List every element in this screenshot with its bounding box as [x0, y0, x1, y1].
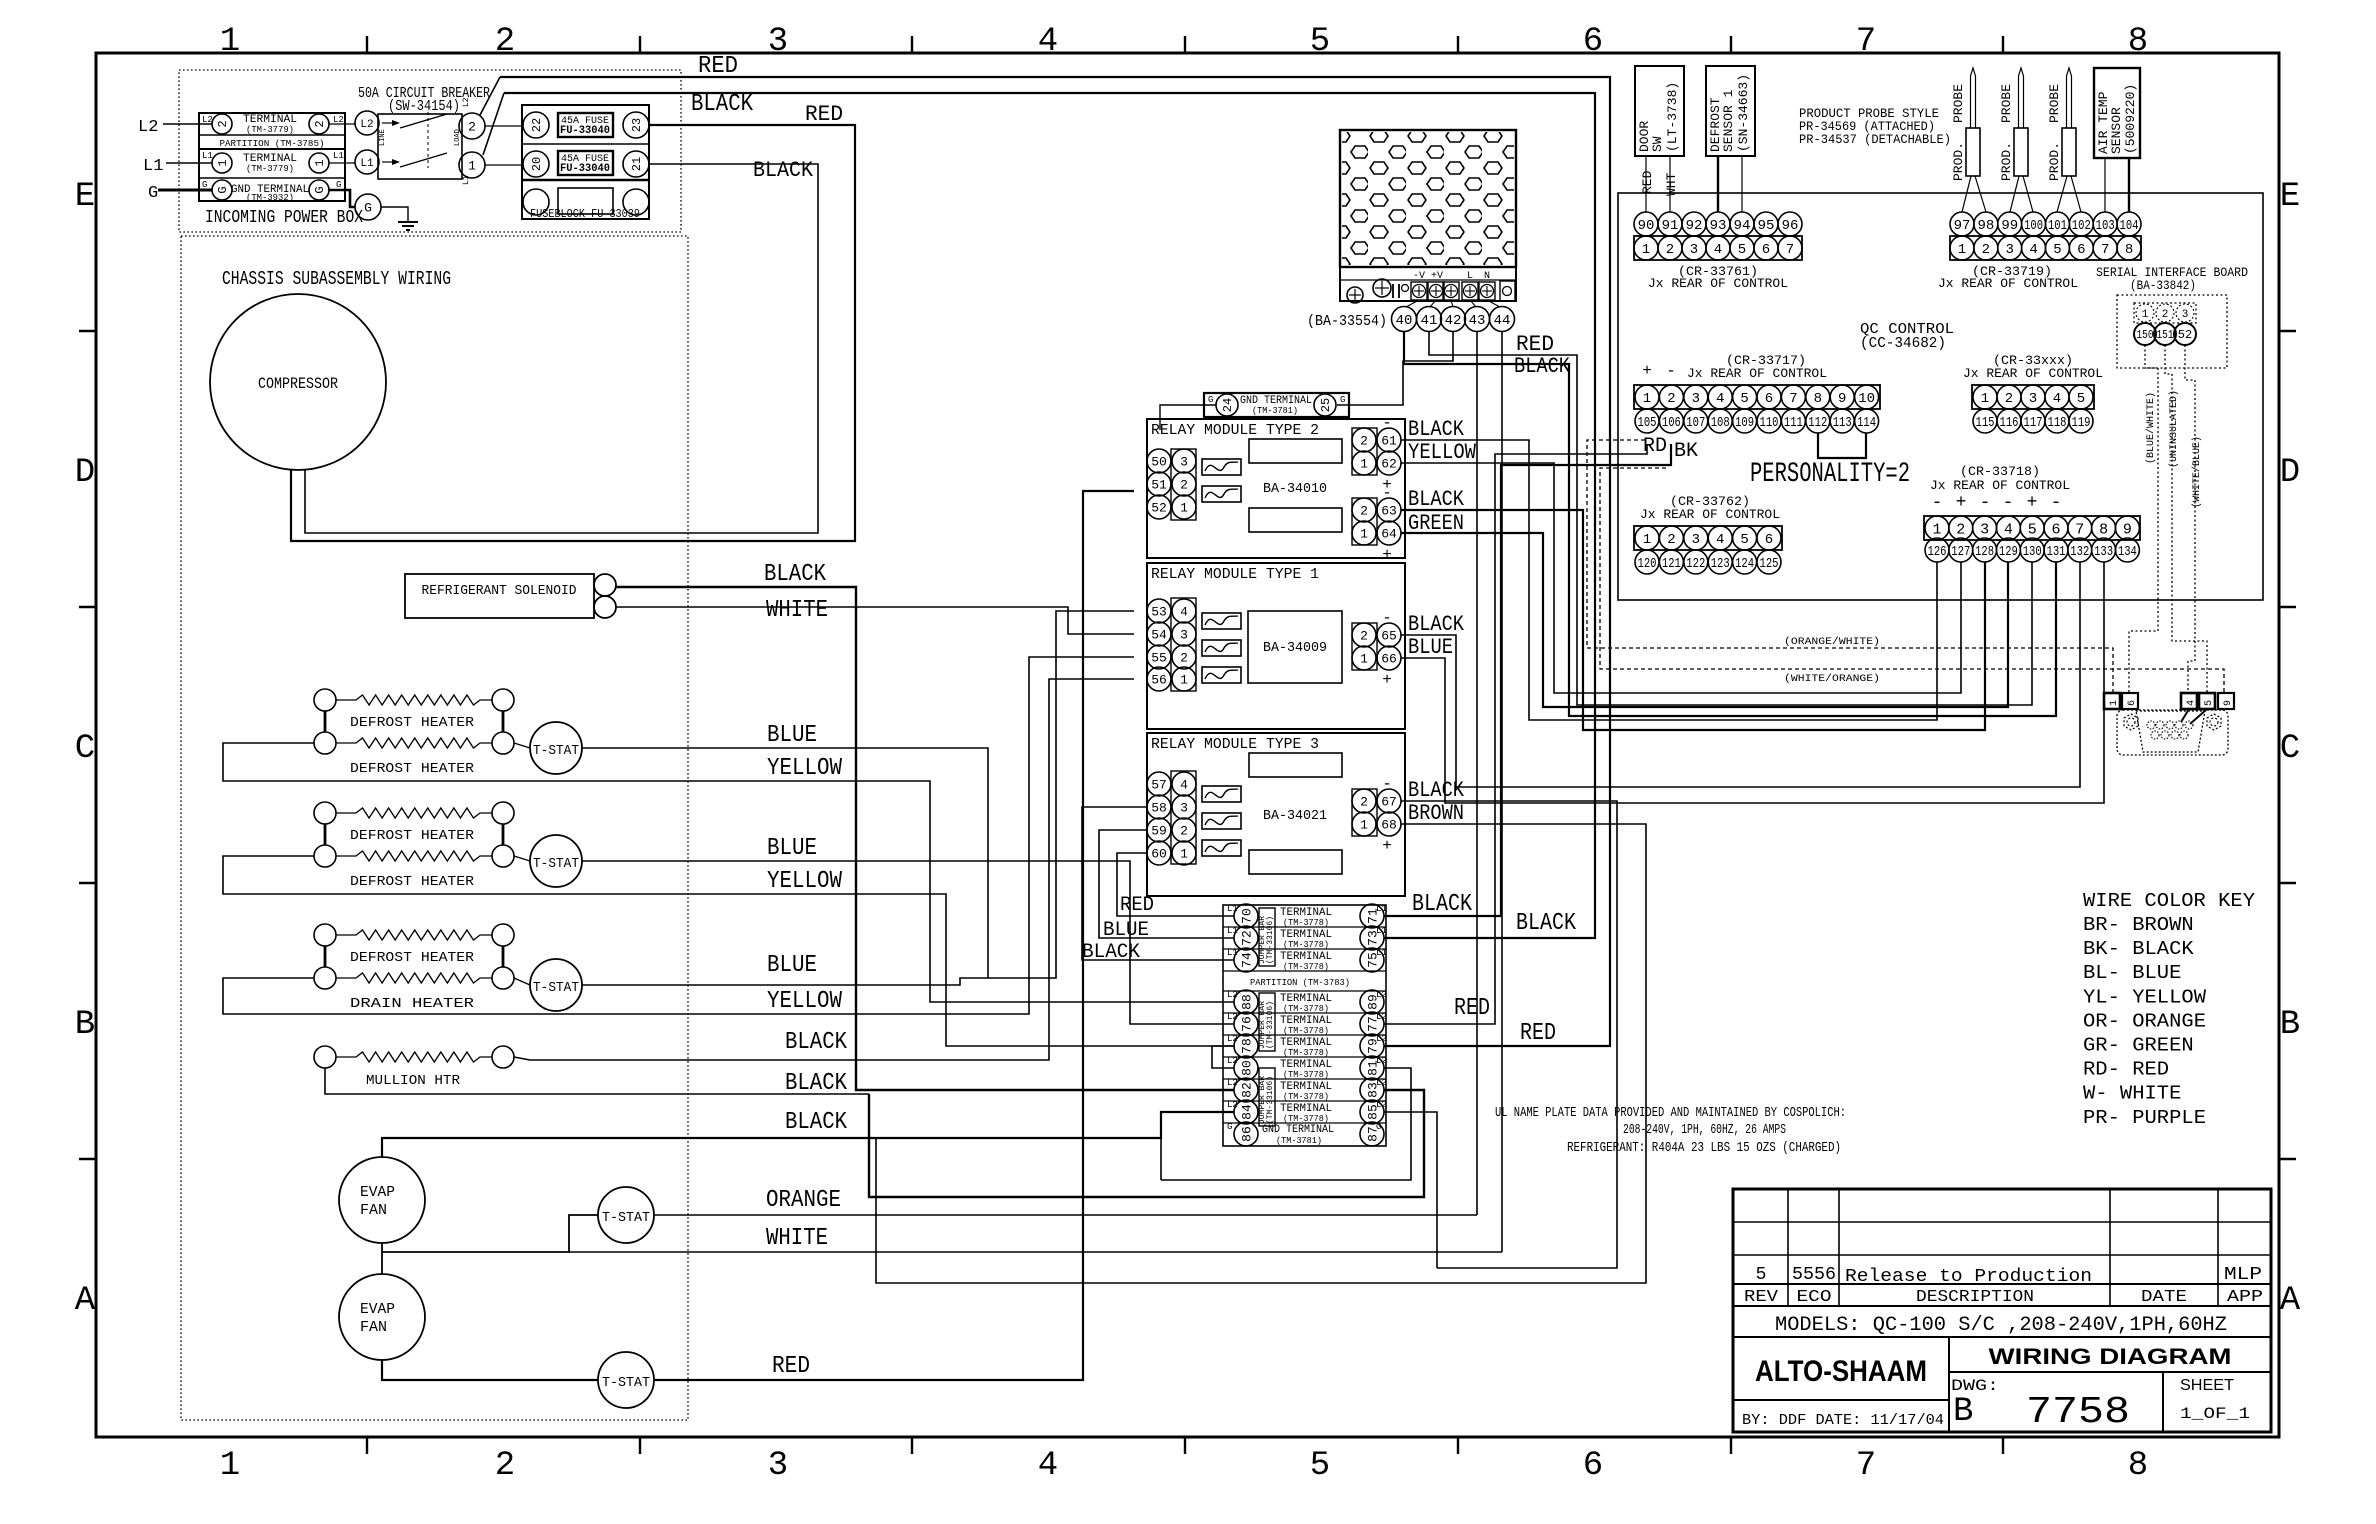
pin 3 [1973, 516, 1997, 540]
svg-text:(ORANGE/WHITE): (ORANGE/WHITE) [1784, 636, 1880, 648]
svg-text:G: G [216, 186, 230, 193]
terminal 41 [1417, 307, 1442, 332]
pin 113 [1830, 409, 1854, 433]
wire supply 43 [1476, 331, 1478, 1215]
relay1 body BA-34009 [1248, 611, 1342, 683]
svg-text:9: 9 [2123, 521, 2132, 538]
DB9 pins row1 [2147, 721, 2155, 729]
QC control enclosure [1618, 193, 2263, 600]
svg-text:3: 3 [2182, 309, 2189, 321]
wire door sw to 90 [1645, 156, 1647, 212]
pin 4 [1706, 236, 1730, 260]
svg-text:3: 3 [1180, 455, 1188, 470]
svg-text:24: 24 [1221, 398, 1235, 412]
wire air temp to 103 [2104, 158, 2106, 212]
svg-text:(TM-3778): (TM-3778) [1283, 1114, 1329, 1124]
svg-text:1: 1 [1360, 652, 1368, 667]
svg-text:59: 59 [1151, 824, 1167, 839]
frame tick [1457, 36, 1459, 53]
svg-text:L1: L1 [202, 151, 213, 161]
compressor [210, 294, 386, 470]
wire breaker 2 diagonal to RED bus [480, 77, 500, 115]
terminal 50/3 [1147, 449, 1171, 473]
svg-text:C: C [2280, 730, 2300, 768]
svg-text:1: 1 [220, 1447, 240, 1485]
svg-text:2: 2 [495, 23, 515, 61]
supply output terminals [1411, 282, 1427, 300]
pin 52 serial [2174, 323, 2196, 345]
t-stat 1 [530, 722, 582, 774]
svg-text:FAN: FAN [360, 1202, 387, 1219]
svg-text:BR- BROWN: BR- BROWN [2083, 914, 2194, 936]
svg-text:PARTITION (TM-3783): PARTITION (TM-3783) [1250, 978, 1350, 988]
svg-text:101: 101 [2048, 218, 2067, 234]
pin 6 [2044, 516, 2068, 540]
svg-text:WHT: WHT [1664, 172, 1679, 196]
relay module type 1 box [1147, 563, 1405, 729]
svg-text:5: 5 [2028, 521, 2037, 538]
fuse 45A FU-33040 bottom [558, 151, 613, 175]
pin 3 [2021, 385, 2045, 409]
wire blue strip 72 from relay 59 [1099, 830, 1234, 938]
wire YELLOW heater3 [223, 657, 1134, 1014]
pin 130 [2020, 538, 2044, 562]
svg-text:T-STAT: T-STAT [533, 980, 579, 996]
svg-text:3: 3 [2029, 391, 2037, 407]
svg-text:2: 2 [2005, 391, 2013, 407]
title block [1733, 1189, 2271, 1432]
pin 134 [2115, 538, 2139, 562]
pin 123 [1708, 550, 1732, 574]
pin 91 [1658, 212, 1682, 236]
wire serial 52 (WHITE/BLUE) dotted [2185, 345, 2195, 694]
svg-text:2: 2 [1982, 242, 1990, 258]
svg-text:+: + [2027, 493, 2038, 513]
wire supply 41 red [1429, 331, 2032, 705]
pin 128 [1973, 538, 1997, 562]
svg-text:1: 1 [216, 159, 230, 166]
svg-text:3: 3 [1690, 242, 1698, 258]
svg-text:4: 4 [1180, 605, 1188, 620]
svg-text:BLACK: BLACK [1514, 354, 1571, 379]
pin 150 serial [2134, 323, 2156, 345]
wire fuse 21 to compressor [305, 164, 818, 533]
wire heater3 to t-stat [514, 978, 530, 985]
wire 61 black [1401, 440, 1937, 720]
svg-text:(TM-3932): (TM-3932) [246, 193, 294, 203]
svg-text:125: 125 [1760, 556, 1779, 572]
pin 2 [1974, 236, 1998, 260]
pin 93 [1706, 212, 1730, 236]
heater element DRAIN HEATER [314, 967, 336, 989]
svg-text:8: 8 [1814, 391, 1822, 407]
svg-text:(CC-34682): (CC-34682) [1860, 335, 1946, 352]
wire BLACK mullion top [514, 679, 1134, 1060]
refrigerant solenoid [405, 574, 594, 618]
wire BLACK top bus [504, 93, 1595, 938]
svg-text:L2: L2 [1376, 1012, 1387, 1022]
svg-text:74: 74 [1240, 952, 1255, 968]
svg-text:131: 131 [2047, 544, 2066, 560]
svg-text:YELLOW: YELLOW [767, 868, 843, 895]
svg-text:58: 58 [1151, 801, 1167, 816]
wire to ground symbol [381, 207, 408, 222]
svg-text:111: 111 [1784, 415, 1803, 431]
svg-text:SHEET: SHEET [2180, 1377, 2234, 1394]
svg-text:LINE: LINE [379, 129, 387, 146]
svg-text:121: 121 [1662, 556, 1681, 572]
wire BK dashed from 106 [1600, 468, 2224, 694]
wire black strip 74 from relay 58 [1082, 807, 1234, 960]
svg-text:62: 62 [1381, 457, 1397, 472]
jumper bar 1 [1259, 908, 1275, 966]
svg-text:123: 123 [1711, 556, 1730, 572]
pin 120 [1635, 550, 1659, 574]
svg-text:L1: L1 [1376, 926, 1387, 936]
svg-text:99: 99 [2001, 218, 2018, 234]
svg-text:1_OF_1: 1_OF_1 [2180, 1405, 2250, 1423]
svg-text:RED: RED [1640, 170, 1655, 194]
svg-text:L2: L2 [1376, 1034, 1387, 1044]
wire BLUE heater3 [582, 611, 1134, 985]
svg-text:60: 60 [1151, 847, 1167, 862]
svg-text:BLACK: BLACK [1408, 612, 1465, 637]
svg-text:4: 4 [2186, 700, 2197, 706]
svg-text:95: 95 [1758, 218, 1775, 234]
pin 2 [1659, 526, 1683, 550]
svg-text:OR- ORANGE: OR- ORANGE [2083, 1010, 2206, 1032]
svg-text:T-STAT: T-STAT [602, 1210, 650, 1226]
wire G to terminal (thick) [158, 189, 212, 192]
svg-text:97: 97 [1954, 218, 1971, 234]
heater element DEFROST HEATER [314, 924, 336, 946]
svg-text:DEFROST HEATER: DEFROST HEATER [350, 761, 475, 777]
frame tick [79, 330, 96, 332]
svg-text:106: 106 [1662, 415, 1681, 431]
svg-text:+V: +V [1431, 271, 1443, 282]
svg-text:115: 115 [1976, 415, 1995, 431]
svg-text:EVAP: EVAP [360, 1184, 395, 1201]
pin 126 [1925, 538, 1949, 562]
wire heater pair right link [502, 711, 505, 732]
svg-text:5: 5 [1740, 532, 1748, 548]
pin 10 [1855, 385, 1879, 409]
svg-text:(WHITE/BLUE): (WHITE/BLUE) [2191, 436, 2203, 508]
svg-text:(UNINSULATED): (UNINSULATED) [2168, 390, 2180, 468]
svg-text:6: 6 [2051, 521, 2060, 538]
svg-text:SENSOR 1: SENSOR 1 [1721, 89, 1736, 152]
svg-text:1: 1 [1643, 391, 1651, 407]
svg-text:5: 5 [2053, 242, 2061, 258]
pin 5 [2045, 236, 2069, 260]
svg-text:(TM-3778): (TM-3778) [1283, 1004, 1329, 1014]
svg-text:1: 1 [468, 159, 476, 174]
pin 3 [1998, 236, 2022, 260]
svg-text:80: 80 [1240, 1060, 1255, 1076]
svg-text:92: 92 [1686, 218, 1703, 234]
svg-text:1: 1 [2109, 700, 2120, 706]
wire supply 42 to gnd terminal 25 [1337, 331, 1453, 405]
svg-text:(TM-3778): (TM-3778) [1283, 1048, 1329, 1058]
terminal 56/1 [1147, 667, 1171, 691]
svg-text:(5009220): (5009220) [2123, 84, 2138, 154]
svg-text:-: - [2051, 493, 2062, 513]
pin 2 [1658, 236, 1682, 260]
wire heater pair right link [502, 946, 505, 967]
wire 67 black [1401, 801, 1617, 1268]
power supply terminal strip [1340, 267, 1516, 301]
svg-text:+: + [1382, 671, 1392, 689]
svg-text:(TM-3778): (TM-3778) [1283, 1092, 1329, 1102]
pin 131 [2044, 538, 2068, 562]
wire heater2 to t-stat [514, 856, 530, 861]
jumper wire 78-80 [1212, 1046, 1234, 1068]
breaker load terminal 1 [459, 152, 485, 178]
svg-text:1: 1 [1180, 673, 1188, 688]
mullion heater [314, 1046, 336, 1068]
wire evap fan2 bottom to t-stat [382, 1360, 598, 1380]
svg-text:PROBE: PROBE [1951, 84, 1966, 123]
t-stat 2 [530, 835, 582, 887]
svg-text:6: 6 [1765, 391, 1773, 407]
svg-text:41: 41 [1421, 313, 1438, 329]
svg-text:10: 10 [1858, 391, 1875, 407]
svg-text:PROBE: PROBE [1999, 84, 2014, 123]
pin 2 [1949, 516, 1973, 540]
pin 116 [1997, 409, 2021, 433]
svg-text:L: L [1467, 271, 1473, 282]
svg-text:RELAY MODULE TYPE 1: RELAY MODULE TYPE 1 [1151, 566, 1319, 583]
svg-text:1: 1 [1932, 521, 1941, 538]
svg-text:EVAP: EVAP [360, 1301, 395, 1318]
relay3 contact rect top [1249, 753, 1342, 777]
svg-text:1: 1 [313, 159, 327, 166]
svg-text:51: 51 [1151, 478, 1167, 493]
svg-text:2: 2 [2162, 309, 2169, 321]
svg-text:2: 2 [1360, 434, 1368, 449]
wire L1 to terminal [166, 162, 212, 164]
wire air temp to 104 [2128, 158, 2130, 212]
relay2 contact rect bottom [1249, 508, 1342, 532]
svg-text:(WHITE/ORANGE): (WHITE/ORANGE) [1784, 673, 1880, 685]
svg-text:(TM-3778): (TM-3778) [1283, 940, 1329, 950]
terminal 42 [1441, 307, 1466, 332]
svg-text:7: 7 [1786, 242, 1794, 258]
svg-text:2: 2 [495, 1447, 515, 1485]
wire defrost sensor to 94 [1741, 156, 1743, 212]
svg-text:6: 6 [2077, 242, 2085, 258]
product probe 2 [2014, 128, 2028, 176]
svg-text:129: 129 [1999, 544, 2018, 560]
svg-text:6: 6 [1583, 23, 1603, 61]
svg-text:ECO: ECO [1797, 1288, 1832, 1307]
svg-text:BA-34010: BA-34010 [1263, 481, 1327, 497]
wire heater pair left link [324, 946, 327, 967]
jumper bar 2 [1259, 993, 1275, 1051]
wire gnd 24 stub [1160, 405, 1216, 430]
svg-text:D: D [75, 454, 95, 492]
svg-text:-V: -V [1413, 271, 1425, 282]
svg-text:D: D [2280, 454, 2300, 492]
DB9 connector body [2117, 710, 2228, 755]
wire strip 81 drop [1160, 1138, 1162, 1180]
svg-text:120: 120 [1638, 556, 1657, 572]
svg-text:L2: L2 [360, 119, 373, 131]
ground terminal node G [329, 190, 355, 207]
wire terminal L1 to breaker L1 [329, 162, 356, 164]
svg-text:B: B [75, 1006, 95, 1044]
DB9 pins row2 [2151, 731, 2159, 739]
svg-text:PROD.: PROD. [1951, 142, 1966, 181]
t-stat evap1 [598, 1187, 654, 1243]
frame tick [639, 36, 641, 53]
wire door sw to 91 [1669, 156, 1671, 212]
svg-text:20: 20 [530, 157, 544, 171]
pin 5 [1733, 526, 1757, 550]
svg-text:RD- RED: RD- RED [2083, 1059, 2169, 1081]
svg-text:PR-34537 (DETACHABLE): PR-34537 (DETACHABLE) [1799, 132, 1951, 147]
svg-text:BLUE: BLUE [767, 722, 817, 749]
pin 6 [1757, 385, 1781, 409]
pin 1 serial [2136, 304, 2154, 322]
svg-text:PROD.: PROD. [2047, 142, 2062, 181]
svg-text:109: 109 [1735, 415, 1754, 431]
chassis subassembly wiring (dashed enclosure) [181, 236, 688, 1420]
evap fan 1 [339, 1157, 425, 1243]
pin 100 [2022, 212, 2046, 236]
pin 151 serial [2154, 323, 2176, 345]
wire solenoid black [616, 587, 1234, 1090]
pin 121 [1659, 550, 1683, 574]
circuit breaker SW-34154 [378, 114, 462, 179]
svg-text:(LT-3738): (LT-3738) [1665, 82, 1680, 152]
svg-text:105: 105 [1638, 415, 1657, 431]
svg-text:4: 4 [1180, 778, 1188, 793]
frame tick [79, 1158, 96, 1160]
svg-text:128: 128 [1975, 544, 1994, 560]
svg-text:40: 40 [1396, 313, 1413, 329]
wires supply terminals to circles [1406, 300, 1419, 307]
svg-text:E: E [2280, 178, 2300, 216]
svg-text:7: 7 [1856, 1447, 1876, 1485]
svg-text:4: 4 [2029, 242, 2037, 258]
svg-text:(SN-34663): (SN-34663) [1736, 74, 1751, 152]
wire 63 black [1401, 510, 1985, 730]
jumper bar 3 [1259, 1068, 1275, 1126]
svg-text:72: 72 [1240, 930, 1255, 946]
svg-text:RED: RED [1520, 1020, 1556, 1047]
t-stat evap2 [598, 1352, 654, 1408]
pin 97 [1950, 212, 1974, 236]
svg-text:G: G [1208, 395, 1213, 405]
wire evap fan1 bottom to t-stat [382, 1215, 598, 1252]
svg-text:-: - [2003, 493, 2014, 513]
pin 119 [2069, 409, 2093, 433]
svg-text:2: 2 [468, 120, 476, 135]
personality jumper 112-114 [1818, 433, 1866, 458]
pin 117 [2021, 409, 2045, 433]
fuse terminal 22 [523, 112, 549, 138]
svg-text:RED: RED [772, 1353, 810, 1380]
svg-text:WIRE COLOR KEY: WIRE COLOR KEY [2083, 890, 2256, 912]
svg-text:113: 113 [1833, 415, 1852, 431]
supply right screw [1500, 281, 1515, 301]
svg-text:BLUE: BLUE [767, 952, 817, 979]
svg-text:96: 96 [1782, 218, 1799, 234]
wire breaker 1 diagonal to BLACK bus [483, 93, 504, 155]
DB9 mounting hex left [2124, 714, 2138, 730]
svg-text:2: 2 [216, 120, 230, 127]
svg-text:3: 3 [768, 1447, 788, 1485]
pin 106 [1659, 409, 1683, 433]
svg-text:67: 67 [1381, 795, 1397, 810]
svg-text:(TM-3778): (TM-3778) [1283, 918, 1329, 928]
svg-text:2: 2 [1180, 478, 1188, 493]
svg-text:90: 90 [1638, 218, 1655, 234]
svg-text:B: B [1953, 1393, 1973, 1431]
terminal 59/2 [1147, 818, 1171, 842]
pin 1 [1634, 236, 1658, 260]
svg-text:4: 4 [1714, 242, 1722, 258]
svg-text:3: 3 [1180, 801, 1188, 816]
svg-text:4: 4 [1038, 1447, 1058, 1485]
pin 96 [1778, 212, 1802, 236]
wire strip 71 black [1384, 444, 1671, 916]
svg-text:76: 76 [1240, 1016, 1255, 1032]
wire square4 to pin [2181, 709, 2189, 722]
svg-text:122: 122 [1686, 556, 1705, 572]
svg-text:+: + [1382, 837, 1392, 855]
svg-text:Jx REAR OF CONTROL: Jx REAR OF CONTROL [1640, 507, 1780, 522]
svg-text:7: 7 [2101, 242, 2109, 258]
fuse terminal 21 [623, 151, 649, 177]
pin 5 [1733, 385, 1757, 409]
svg-text:104: 104 [2120, 218, 2139, 234]
pin 3 [1682, 236, 1706, 260]
svg-text:5: 5 [2204, 700, 2215, 706]
svg-text:PR- PURPLE: PR- PURPLE [2083, 1107, 2206, 1129]
svg-text:124: 124 [1735, 556, 1754, 572]
svg-text:B: B [2280, 1006, 2300, 1044]
svg-text:+: + [1956, 493, 1967, 513]
pin 4 [2045, 385, 2069, 409]
svg-text:8: 8 [2099, 521, 2108, 538]
frame tick [1730, 36, 1732, 53]
svg-text:4: 4 [2053, 391, 2061, 407]
svg-text:L1: L1 [1376, 948, 1387, 958]
pin 102 [2069, 212, 2093, 236]
svg-text:9: 9 [2223, 700, 2234, 706]
pin 114 [1855, 409, 1879, 433]
evap fan 2 [339, 1274, 425, 1360]
wire probe 1 tails [1962, 176, 1971, 212]
svg-text:GR- GREEN: GR- GREEN [2083, 1035, 2194, 1057]
svg-text:1: 1 [1180, 501, 1188, 516]
svg-text:132: 132 [2070, 544, 2089, 560]
svg-text:107: 107 [1686, 415, 1705, 431]
pin 7 [2093, 236, 2117, 260]
wire serial 150 (BLUE/WHITE) dotted [2129, 345, 2158, 694]
svg-text:5: 5 [1756, 1265, 1767, 1285]
svg-text:L1: L1 [462, 175, 471, 185]
svg-text:RELAY MODULE TYPE 3: RELAY MODULE TYPE 3 [1151, 736, 1319, 753]
pin 2 [1997, 385, 2021, 409]
heater element DEFROST HEATER [314, 802, 336, 824]
svg-text:T-STAT: T-STAT [533, 743, 579, 759]
svg-text:G: G [313, 186, 327, 193]
wire 62 yellow [1401, 463, 1961, 693]
svg-text:BROWN: BROWN [1408, 801, 1464, 826]
